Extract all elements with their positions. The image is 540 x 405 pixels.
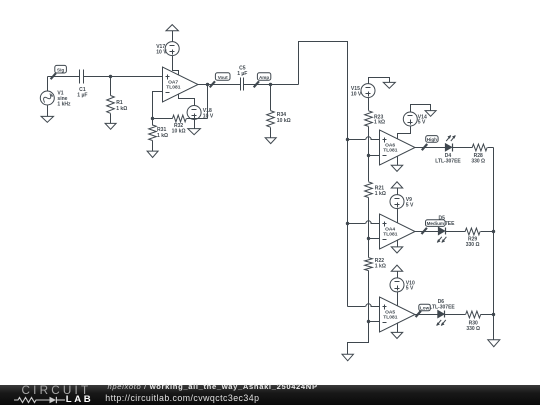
ground (divider bottom) [342, 354, 353, 361]
voltage source V9 (5 V) [390, 195, 414, 209]
resistor R22 [365, 239, 386, 322]
svg-text:330 Ω: 330 Ω [471, 158, 485, 164]
resistor R32 [153, 115, 208, 134]
wire OA4 V- pin to ground [397, 240, 399, 247]
wire OA5 V- pin to ground [397, 323, 399, 333]
resistor R28 [471, 144, 493, 164]
resistor R21 [365, 156, 386, 239]
resistor R30 [466, 311, 494, 332]
ground below R1 [105, 123, 116, 129]
op-amp OA6 [380, 130, 416, 165]
svg-text:1 µF: 1 µF [237, 71, 247, 77]
wire OA7 output [198, 84, 241, 86]
ground below OA6 [391, 165, 402, 171]
node (Amp / R34 top) [269, 83, 272, 86]
wire right return bus [493, 148, 495, 340]
resistor R23 [365, 98, 385, 156]
resistor R29 [465, 228, 493, 248]
node (R29 join) [492, 230, 495, 233]
svg-text:5 V: 5 V [418, 120, 426, 126]
feedback wire (output to R32) [207, 85, 209, 119]
wire bus to OA5 + input (with hop) [348, 304, 380, 307]
LED D5 [437, 227, 446, 242]
capacitor C1 [77, 70, 87, 99]
resistor R34 [267, 85, 291, 138]
LED D4 labels [435, 153, 461, 165]
node (OA6 inverting) [367, 154, 370, 157]
op-amp OA7 [163, 67, 199, 102]
wire to OA6 inverting input [369, 155, 380, 157]
capacitor C5 [237, 66, 247, 91]
svg-text:LTL-307EE: LTL-307EE [435, 158, 461, 164]
wire C5 to corner [244, 84, 299, 86]
wire V14 to ground [411, 105, 431, 113]
net flag Sig [51, 65, 67, 79]
resistor R1 [107, 77, 128, 124]
svg-text:TL081: TL081 [383, 232, 397, 238]
svg-text:330 Ω: 330 Ω [466, 326, 480, 332]
net flag Amp [254, 73, 271, 88]
wire bus to OA6 + input (with hop) [348, 137, 380, 140]
wire to OA4 inverting input [369, 238, 380, 240]
voltage source V14 (5 V) [403, 112, 427, 126]
wire OA5 output to D6 [415, 314, 438, 316]
svg-text:Amp: Amp [259, 75, 269, 80]
svg-text:TL081: TL081 [383, 148, 397, 154]
svg-text:5 V: 5 V [406, 202, 414, 208]
ground below OA5 [391, 332, 402, 338]
LED D4 [445, 136, 455, 152]
wire OA4 output to D5 [415, 231, 439, 233]
ground below V18 [188, 120, 201, 135]
LED D6 [437, 311, 446, 326]
wire OA7 inverting input [153, 92, 163, 119]
net flag Low [416, 304, 431, 317]
svg-text:10 kΩ: 10 kΩ [277, 118, 291, 124]
voltage source V10 (5 V) [390, 278, 415, 292]
node (bus to OA6 +) [346, 138, 349, 141]
svg-text:330 Ω: 330 Ω [466, 242, 480, 248]
node (R30 join) [492, 313, 495, 316]
node (R1 top) [109, 75, 112, 78]
svg-text:Sig: Sig [57, 68, 64, 73]
svg-text:1 kΩ: 1 kΩ [157, 133, 168, 139]
wire V10 to OA5 V+ pin [397, 292, 399, 306]
ground above V17 [166, 25, 178, 42]
wire OA6 V+ pin to V14 [398, 127, 411, 139]
svg-text:TL081: TL081 [166, 85, 180, 91]
node (OA5 inverting) [367, 320, 370, 323]
LED D6 labels [429, 299, 455, 311]
ground right of V15 [383, 82, 395, 88]
ground below R31 [147, 151, 158, 157]
resistor R31 [149, 119, 168, 152]
wire OA6 output to D4 [415, 147, 446, 149]
ground above V9 [391, 182, 402, 195]
voltage source V15 (10 V) [351, 84, 375, 98]
svg-text:10 kΩ: 10 kΩ [172, 129, 186, 135]
voltage source V17 (10 V) [156, 42, 179, 56]
CircuitLab logo resistor-diode squiggle [8, 385, 68, 405]
svg-text:1 kHz: 1 kHz [57, 101, 71, 107]
svg-text:Vout: Vout [218, 75, 228, 80]
wire D4 to R28 [453, 147, 473, 149]
wire to OA5 inverting input [369, 321, 380, 323]
svg-text:1 kΩ: 1 kΩ [116, 106, 127, 112]
svg-text:5 V: 5 V [406, 286, 414, 292]
wire V9 to OA6 V+ pin [397, 209, 399, 223]
op-amp OA5 [380, 297, 416, 332]
net flag Vout [210, 73, 230, 88]
net flag Medium [422, 220, 446, 234]
ground below OA4 [391, 247, 402, 253]
CircuitLab logo wordmark [22, 384, 92, 397]
wire D5 to R29 [446, 231, 466, 233]
wire D6 to R30 [445, 314, 466, 316]
node (Vout) [206, 83, 209, 86]
LED D5 labels [429, 215, 455, 227]
svg-text:TL081: TL081 [383, 315, 397, 321]
svg-text:Low: Low [420, 305, 430, 310]
voltage source V18 (10 V) [187, 106, 214, 120]
svg-text:High: High [427, 137, 437, 142]
wire OA6 V- pin to ground [397, 157, 399, 166]
node (OA4 inverting) [367, 237, 370, 240]
wire bus to OA4 + input (with hop) [348, 221, 380, 224]
voltage source V1 (sine 1 kHz) [40, 77, 71, 108]
svg-text:LTL-307EE: LTL-307EE [429, 305, 455, 311]
svg-text:10 V: 10 V [351, 92, 362, 98]
svg-text:1 kΩ: 1 kΩ [374, 120, 385, 126]
wire C1 to op-amp [84, 76, 163, 78]
svg-text:10 V: 10 V [156, 49, 167, 55]
node (feedback junction) [151, 117, 154, 120]
wire OA7 V+ pin to V17 [173, 56, 179, 75]
wire V1 to C1 [48, 76, 80, 78]
svg-text:1 µF: 1 µF [77, 92, 87, 98]
ground (LED return) [488, 340, 500, 347]
node (bus to OA4 +) [346, 222, 349, 225]
svg-text:1 kΩ: 1 kΩ [375, 264, 386, 270]
ground below V1 [41, 106, 53, 123]
ground above V10 [391, 265, 402, 277]
svg-text:Medium: Medium [427, 221, 444, 226]
op-amp OA4 [380, 214, 416, 249]
net flag High [422, 136, 438, 151]
ground below R34 [265, 138, 276, 144]
svg-text:1 kΩ: 1 kΩ [375, 191, 386, 197]
wire Amp to comparator bus (up and over) [299, 42, 348, 307]
ground right of V14 [425, 111, 436, 117]
wire OA7 V- pin to V18 [179, 94, 195, 106]
wire V15 to ground [369, 78, 390, 84]
wire chain to ground [348, 322, 369, 355]
